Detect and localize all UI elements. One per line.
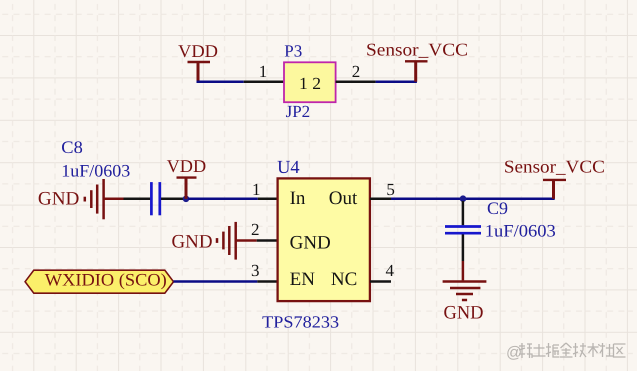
svg-text:Sensor_VCC: Sensor_VCC bbox=[366, 39, 468, 59]
svg-text:JP2: JP2 bbox=[286, 102, 311, 121]
svg-text:C8: C8 bbox=[61, 137, 83, 157]
svg-text:1uF/0603: 1uF/0603 bbox=[61, 160, 130, 180]
svg-text:WXIDIO (SCO): WXIDIO (SCO) bbox=[45, 270, 167, 290]
svg-text:VDD: VDD bbox=[167, 156, 207, 176]
svg-text:@: @ bbox=[506, 345, 522, 362]
svg-text:2: 2 bbox=[251, 220, 260, 239]
svg-text:4: 4 bbox=[385, 261, 394, 280]
svg-text:Out: Out bbox=[329, 188, 358, 209]
svg-text:1: 1 bbox=[259, 62, 268, 81]
svg-text:5: 5 bbox=[386, 180, 395, 199]
svg-text:C9: C9 bbox=[487, 198, 508, 218]
svg-text:GND: GND bbox=[38, 188, 80, 209]
svg-text:NC: NC bbox=[331, 269, 357, 290]
svg-text:GND: GND bbox=[172, 232, 213, 253]
svg-text:P3: P3 bbox=[284, 42, 302, 61]
svg-text:EN: EN bbox=[290, 269, 316, 290]
svg-text:2: 2 bbox=[352, 62, 361, 81]
svg-text:3: 3 bbox=[251, 261, 260, 280]
svg-text:U4: U4 bbox=[277, 158, 300, 178]
svg-text:1uF/0603: 1uF/0603 bbox=[485, 220, 556, 240]
svg-text:1 2: 1 2 bbox=[299, 74, 321, 93]
svg-text:GND: GND bbox=[290, 232, 331, 253]
svg-text:GND: GND bbox=[444, 303, 484, 324]
svg-text:In: In bbox=[290, 188, 306, 209]
svg-text:TPS78233: TPS78233 bbox=[262, 313, 339, 332]
svg-text:VDD: VDD bbox=[178, 41, 218, 61]
svg-text:Sensor_VCC: Sensor_VCC bbox=[504, 156, 605, 176]
svg-text:1: 1 bbox=[252, 180, 261, 199]
